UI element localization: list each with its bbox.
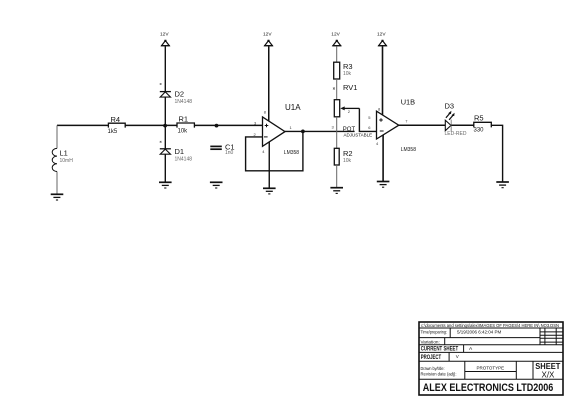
svg-text:1n0: 1n0	[225, 150, 234, 156]
op-amp U1B	[368, 97, 416, 153]
svg-text:X/X: X/X	[542, 371, 556, 380]
svg-text:2: 2	[254, 132, 257, 137]
svg-text:c:\documents and settings\alex: c:\documents and settings\alex\IMAGES OF…	[421, 323, 559, 328]
svg-text:12V: 12V	[331, 31, 340, 37]
ground under diodes	[159, 182, 172, 188]
LED D3	[445, 102, 467, 138]
svg-text:D1: D1	[175, 147, 185, 156]
svg-text:D3: D3	[445, 102, 455, 111]
resistor R2	[334, 148, 352, 165]
svg-text:Drawn by/title:: Drawn by/title:	[421, 366, 445, 371]
svg-text:U1A: U1A	[285, 103, 301, 112]
svg-text:CURRENT SHEET: CURRENT SHEET	[421, 346, 459, 352]
inductor L1	[52, 148, 73, 171]
wire U1A feedback loop	[246, 131, 303, 170]
wire R5 to ground corner	[491, 125, 502, 182]
title block frame	[419, 322, 563, 395]
diode D1	[160, 141, 192, 163]
junction node C1 tap	[215, 124, 219, 128]
wire power to D2	[164, 46, 166, 91]
resistor R4	[108, 115, 126, 135]
potentiometer RV1	[332, 83, 360, 129]
svg-text:PROTOTYPE: PROTOTYPE	[477, 366, 505, 371]
power terminal 12V rail 1	[160, 31, 332, 45]
resistor R3	[334, 62, 353, 79]
svg-text:R2: R2	[343, 149, 353, 158]
wire U1A output	[285, 130, 303, 132]
svg-text:D2: D2	[175, 90, 185, 99]
svg-text:LED-RED: LED-RED	[445, 131, 467, 137]
ground under U1B	[377, 182, 390, 188]
wire U1A ground pin	[268, 142, 270, 188]
svg-text:R5: R5	[474, 114, 484, 123]
junction node U1A output	[301, 130, 305, 134]
wire R3 to RV1	[336, 79, 338, 100]
svg-text:8: 8	[264, 110, 267, 115]
svg-text:R3: R3	[343, 62, 353, 71]
wire D3 to R5	[451, 124, 474, 126]
svg-text:LM358: LM358	[401, 147, 417, 153]
svg-text:U1B: U1B	[401, 97, 415, 106]
wire L1 vertical	[56, 125, 58, 194]
svg-text:Revision date (adj):: Revision date (adj):	[421, 372, 457, 377]
wire power to R3	[336, 46, 338, 62]
svg-text:ALEX ELECTRONICS LTD2006: ALEX ELECTRONICS LTD2006	[423, 382, 554, 394]
svg-text:A: A	[469, 346, 473, 352]
svg-text:5: 5	[368, 115, 371, 120]
wire R2 to ground	[336, 165, 338, 188]
svg-text:6: 6	[368, 125, 371, 130]
capacitor C1	[210, 143, 234, 157]
ground under R2	[330, 188, 343, 194]
svg-text:330: 330	[474, 128, 485, 134]
svg-text:12V: 12V	[160, 31, 169, 37]
resistor R5	[474, 114, 492, 134]
svg-text:1N4148: 1N4148	[175, 99, 193, 105]
svg-text:R4: R4	[111, 115, 121, 124]
svg-text:10k: 10k	[178, 129, 189, 135]
power terminal 12V rail 4	[377, 31, 387, 45]
svg-text:V: V	[456, 354, 459, 359]
wire power to U1A	[268, 46, 270, 121]
svg-text:1: 1	[290, 125, 293, 130]
power terminal 12V rail 2	[263, 31, 273, 45]
svg-text:1N4148: 1N4148	[175, 157, 193, 163]
ground under C1	[210, 182, 223, 188]
svg-text:Variation:: Variation:	[421, 340, 440, 345]
wire D2 to junction	[164, 97, 166, 125]
ground under U1A	[263, 188, 276, 194]
svg-text:12V: 12V	[263, 31, 272, 37]
power terminal 12V rail 3	[331, 31, 341, 45]
wire D1 to ground	[164, 154, 166, 182]
wire main input net	[57, 124, 262, 126]
svg-text:ADJUSTABLE: ADJUSTABLE	[344, 132, 373, 137]
op-amp U1A	[254, 103, 302, 156]
wire U1B output to D3	[399, 124, 446, 126]
svg-text:PROJECT: PROJECT	[421, 355, 442, 361]
junction node diode stack	[163, 124, 167, 128]
svg-text:LM358: LM358	[284, 150, 300, 156]
svg-text:5/19/2006 6:42:04 PM: 5/19/2006 6:42:04 PM	[457, 330, 502, 335]
ground right of R5	[496, 182, 509, 188]
svg-text:7: 7	[405, 118, 408, 123]
svg-text:RV1: RV1	[343, 83, 357, 92]
svg-text:Time/preparing:: Time/preparing:	[421, 330, 448, 335]
svg-text:L1: L1	[60, 149, 68, 158]
svg-text:10k: 10k	[343, 158, 352, 164]
wire power to U1B	[382, 46, 384, 115]
svg-text:10mH: 10mH	[60, 158, 74, 164]
svg-text:3: 3	[332, 124, 335, 129]
wire U1B ground pin	[382, 135, 384, 182]
svg-text:SHEET: SHEET	[535, 362, 560, 371]
svg-text:R1: R1	[179, 115, 189, 124]
wire U1A output to comparator net	[303, 130, 355, 132]
ground under L1	[51, 194, 64, 200]
diode D2	[160, 83, 192, 105]
svg-text:4: 4	[376, 141, 379, 146]
svg-text:12V: 12V	[377, 31, 386, 37]
svg-text:10k: 10k	[343, 71, 352, 77]
svg-text:1k5: 1k5	[108, 129, 118, 135]
wire RV1 to R2 rail	[336, 117, 338, 149]
resistor R1	[177, 115, 194, 135]
svg-text:2: 2	[348, 109, 351, 114]
svg-text:4: 4	[262, 149, 265, 154]
wire RV1 wiper to U1B	[359, 108, 376, 131]
svg-text:8: 8	[378, 107, 381, 112]
wire junction to D1	[164, 125, 166, 148]
